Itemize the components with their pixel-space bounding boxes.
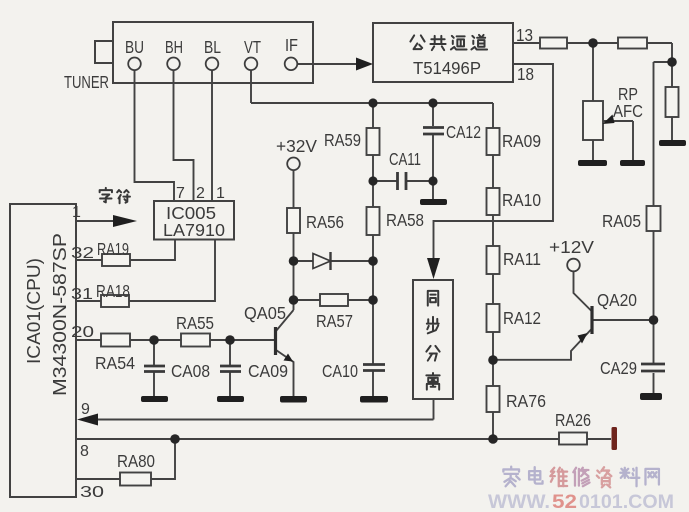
- svg-text:RA12: RA12: [503, 308, 541, 328]
- svg-text:RA26: RA26: [555, 410, 591, 430]
- svg-text:M34300N-587SP: M34300N-587SP: [50, 233, 70, 396]
- svg-text:TUNER: TUNER: [64, 72, 109, 92]
- svg-text:+12V: +12V: [549, 237, 594, 257]
- svg-text:RA05: RA05: [602, 211, 641, 231]
- svg-text:8: 8: [80, 443, 89, 460]
- svg-text:CA11: CA11: [389, 149, 421, 169]
- svg-text:9: 9: [81, 401, 90, 418]
- svg-text:ICA01(CPU): ICA01(CPU): [24, 258, 44, 364]
- svg-text:CA12: CA12: [446, 122, 481, 142]
- svg-text:+32V: +32V: [276, 136, 317, 156]
- svg-text:31: 31: [71, 286, 93, 303]
- svg-text:LA7910: LA7910: [163, 220, 225, 240]
- svg-text:CA09: CA09: [248, 361, 288, 381]
- svg-text:RA18: RA18: [96, 281, 130, 301]
- svg-text:RA80: RA80: [117, 451, 155, 471]
- svg-text:BL: BL: [204, 37, 221, 57]
- svg-text:RA11: RA11: [503, 249, 541, 269]
- svg-text:20: 20: [71, 324, 94, 341]
- svg-text:2: 2: [196, 185, 205, 202]
- svg-text:CA29: CA29: [600, 358, 637, 378]
- svg-text:RA58: RA58: [386, 210, 424, 230]
- svg-text:18: 18: [517, 64, 534, 84]
- svg-text:QA20: QA20: [597, 290, 637, 310]
- svg-text:1: 1: [72, 204, 81, 221]
- svg-text:RA59: RA59: [324, 130, 361, 150]
- svg-text:7: 7: [176, 185, 185, 202]
- svg-text:RA54: RA54: [95, 353, 135, 373]
- svg-text:RA57: RA57: [316, 311, 353, 331]
- svg-text:CA08: CA08: [171, 361, 210, 381]
- svg-text:52: 52: [552, 491, 577, 512]
- svg-text:T51496P: T51496P: [413, 58, 481, 78]
- svg-text:32: 32: [71, 245, 94, 262]
- svg-text:RA19: RA19: [97, 239, 129, 259]
- svg-text:BH: BH: [165, 37, 183, 57]
- svg-text:0101.COM: 0101.COM: [579, 491, 674, 512]
- svg-text:RA09: RA09: [502, 131, 541, 151]
- svg-text:RA56: RA56: [306, 212, 344, 232]
- svg-text:BU: BU: [125, 37, 144, 57]
- svg-text:VT: VT: [244, 37, 261, 57]
- svg-text:RA10: RA10: [502, 190, 541, 210]
- svg-text:1: 1: [216, 185, 225, 202]
- svg-text:IF: IF: [285, 35, 298, 55]
- svg-text:CA10: CA10: [322, 361, 358, 381]
- svg-text:QA05: QA05: [244, 303, 286, 323]
- svg-text:13: 13: [516, 25, 533, 45]
- svg-text:RA76: RA76: [506, 391, 546, 411]
- svg-text:RA55: RA55: [176, 313, 214, 333]
- svg-text:WWW.: WWW.: [488, 491, 550, 512]
- svg-text:AFC: AFC: [613, 101, 643, 121]
- svg-text:30: 30: [80, 484, 104, 501]
